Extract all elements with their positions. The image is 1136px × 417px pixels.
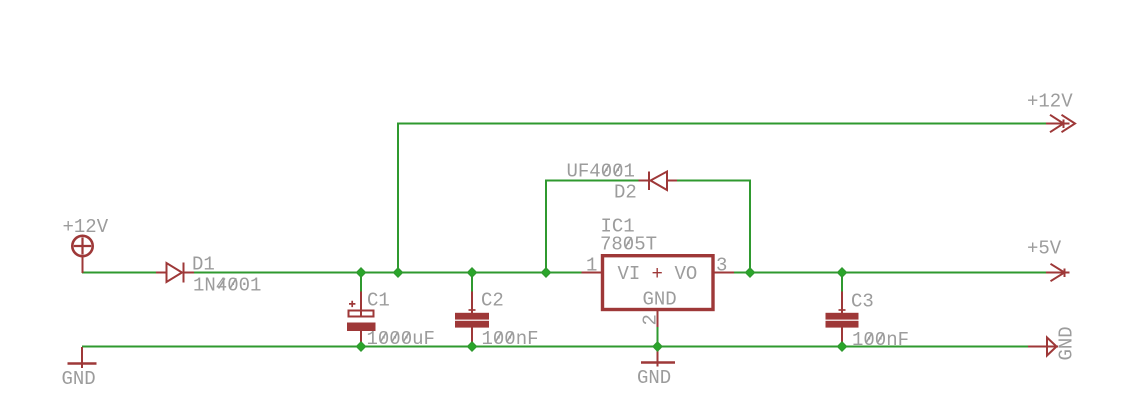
svg-text:C2: C2 xyxy=(481,290,504,312)
supply symbol +12V (circle with plus) xyxy=(72,236,92,273)
wire: C1 bottom lead xyxy=(360,343,362,347)
wire: pin 2 to ground rail xyxy=(657,327,659,346)
svg-text:GND: GND xyxy=(637,367,671,389)
ground symbol (center, IC1 pin 2) xyxy=(641,347,675,367)
ground symbol (left) xyxy=(68,347,97,368)
svg-text:100nF: 100nF xyxy=(852,329,909,351)
svg-text:+5V: +5V xyxy=(1027,238,1062,260)
+12V output arrow (double chevron) xyxy=(1046,115,1075,132)
svg-text:GND: GND xyxy=(1056,326,1078,360)
svg-text:D2: D2 xyxy=(614,182,637,204)
junction: +5V rail / D2 return xyxy=(745,268,754,277)
junction: GND rail / IC1 pin 2 xyxy=(653,342,662,351)
wire: GND rail xyxy=(82,346,1028,348)
GND output arrow (open triangle, right) xyxy=(1028,338,1058,356)
svg-text:2: 2 xyxy=(640,314,662,325)
junction: GND rail / C2 xyxy=(467,342,476,351)
svg-text:C1: C1 xyxy=(367,290,390,312)
svg-text:+12V: +12V xyxy=(1027,91,1073,113)
junction: rail / D2 riser xyxy=(541,268,550,277)
diode D2 (pointing left) xyxy=(639,172,678,191)
diode D1 xyxy=(156,263,194,283)
svg-text:+12V: +12V xyxy=(63,216,109,238)
junction: +5V rail / C3 xyxy=(837,268,846,277)
+5V output arrow xyxy=(1046,264,1070,281)
svg-text:C3: C3 xyxy=(851,291,874,313)
pin 2 stub xyxy=(657,311,659,327)
svg-text:+: + xyxy=(652,263,663,285)
junction: GND rail / C3 xyxy=(837,342,846,351)
wire: C1 top lead xyxy=(360,273,362,292)
wire: VIN branch up and across to +12V output arrow xyxy=(398,124,1048,273)
junction: rail / C2 xyxy=(467,268,476,277)
capacitor C1 (polarized) xyxy=(348,291,375,343)
svg-text:GND: GND xyxy=(643,289,677,311)
wire: VIN net, rail from D1 cathode to IC1 pin 1 xyxy=(194,272,582,274)
svg-text:3: 3 xyxy=(716,255,727,277)
wire: C2 top lead xyxy=(471,273,473,292)
pin 1 stub xyxy=(582,272,602,274)
wire: +12V net, rail from supply to D1 anode xyxy=(82,272,156,274)
svg-text:1N4001: 1N4001 xyxy=(193,275,261,297)
svg-text:UF4001: UF4001 xyxy=(567,161,635,183)
svg-text:7805T: 7805T xyxy=(600,234,657,256)
capacitor C3 xyxy=(827,291,858,343)
svg-text:GND: GND xyxy=(62,368,96,390)
capacitor C2 xyxy=(456,291,488,343)
voltage regulator IC1 (7805) body xyxy=(603,256,714,310)
svg-text:VO: VO xyxy=(675,263,698,285)
junction: rail / +12V branch xyxy=(393,268,402,277)
wire: D2 anode across and down to +5V rail xyxy=(677,181,750,273)
wire: VIN riser to D2 cathode side xyxy=(546,181,639,273)
pin 3 stub xyxy=(715,272,735,274)
svg-text:1: 1 xyxy=(586,255,597,277)
wire: C3 top lead xyxy=(841,273,843,292)
wire: +5V net from IC1 pin 3 to output arrow xyxy=(734,272,1048,274)
svg-text:VI: VI xyxy=(618,263,641,285)
wire: C3 bottom lead xyxy=(841,343,843,347)
wire: C2 bottom lead xyxy=(471,343,473,347)
junction: rail / C1 xyxy=(356,268,365,277)
junction: GND rail / C1 xyxy=(356,342,365,351)
